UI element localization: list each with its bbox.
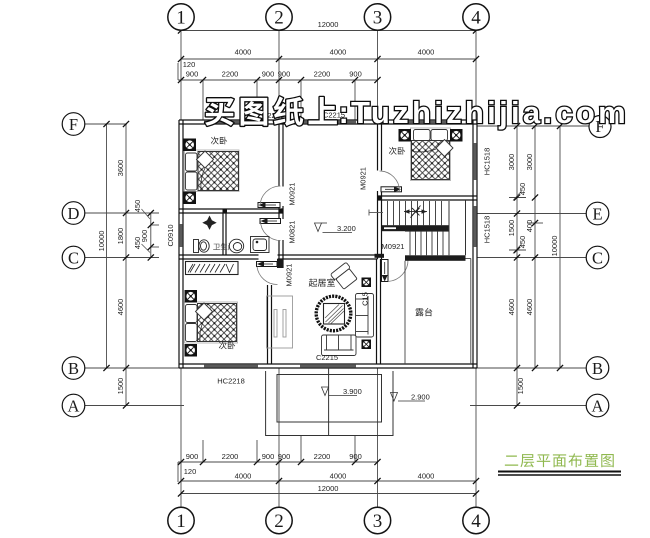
svg-text:C2215: C2215 bbox=[316, 353, 338, 362]
wall bedroom2 bottom bbox=[378, 196, 478, 200]
svg-text:900: 900 bbox=[278, 70, 291, 79]
room label 露台 bbox=[415, 308, 432, 316]
living room sofa bottom bbox=[322, 335, 357, 356]
door M0821 bath arc bbox=[261, 221, 281, 241]
living room armchair bbox=[330, 262, 358, 290]
left dimension lines bbox=[107, 124, 160, 406]
terrace inner parapet lines bbox=[404, 261, 406, 364]
svg-text:4000: 4000 bbox=[418, 48, 435, 57]
stairs upper flight treads bbox=[388, 201, 442, 225]
interior wall v2 hall/bedroom-stairs bbox=[377, 124, 382, 364]
top-left bedroom: bed outline bbox=[185, 150, 240, 192]
svg-text:2: 2 bbox=[274, 511, 284, 532]
svg-text:1500: 1500 bbox=[507, 220, 516, 237]
svg-text::: : bbox=[339, 95, 349, 130]
wall junction blobs bbox=[279, 209, 284, 214]
svg-text:1500: 1500 bbox=[516, 378, 525, 395]
svg-text:1500: 1500 bbox=[116, 378, 125, 395]
living room rug circle bbox=[316, 296, 351, 331]
nightstand lamp 2 bbox=[184, 192, 197, 205]
svg-text:450: 450 bbox=[518, 183, 527, 196]
room label 起居室 bbox=[309, 278, 335, 286]
dimension texts top bbox=[183, 20, 435, 79]
svg-text:HC1518: HC1518 bbox=[483, 216, 492, 244]
washbasin bbox=[229, 239, 243, 253]
svg-text:3.200: 3.200 bbox=[337, 224, 356, 233]
svg-text:C0910: C0910 bbox=[166, 224, 175, 246]
svg-text:4600: 4600 bbox=[116, 299, 125, 316]
grid bubbles bottom bbox=[168, 507, 489, 533]
svg-text:4000: 4000 bbox=[235, 48, 252, 57]
TITLE green bbox=[498, 453, 621, 475]
svg-text:M0921: M0921 bbox=[359, 167, 368, 190]
svg-text:HC1518: HC1518 bbox=[483, 148, 492, 176]
window C0910 band bbox=[180, 224, 183, 247]
svg-text:900: 900 bbox=[186, 70, 199, 79]
lower bedroom bed outline bbox=[185, 302, 238, 343]
door M0921 right bedroom leaf bbox=[381, 187, 402, 192]
svg-text:3.900: 3.900 bbox=[343, 387, 362, 396]
svg-text:4000: 4000 bbox=[330, 48, 347, 57]
hinge stub at living door bbox=[277, 259, 284, 268]
svg-text:M0921: M0921 bbox=[285, 264, 294, 287]
svg-text:900: 900 bbox=[186, 452, 199, 461]
living room table bbox=[324, 304, 345, 325]
svg-text:2200: 2200 bbox=[314, 452, 331, 461]
svg-text:3000: 3000 bbox=[507, 154, 516, 171]
door M0821 bath leaf bbox=[260, 219, 281, 224]
svg-text:3000: 3000 bbox=[525, 154, 534, 171]
svg-text:4: 4 bbox=[471, 8, 481, 29]
svg-text:120: 120 bbox=[184, 467, 197, 476]
porch outline bbox=[266, 368, 393, 436]
pillows bbox=[186, 153, 198, 190]
svg-text:A: A bbox=[68, 396, 80, 415]
grid row lines left bbox=[85, 124, 184, 406]
bathroom divider wall bbox=[223, 213, 226, 255]
svg-text:1: 1 bbox=[176, 8, 186, 29]
svg-text:M0921: M0921 bbox=[288, 183, 297, 206]
svg-text:900: 900 bbox=[262, 452, 275, 461]
quilt bbox=[198, 152, 239, 191]
svg-text:10000: 10000 bbox=[550, 236, 559, 257]
grid bubbles top bbox=[168, 4, 489, 30]
bathroom label bbox=[213, 243, 234, 250]
svg-text:E: E bbox=[592, 204, 602, 223]
quilt fold right bedroom bbox=[436, 140, 453, 157]
window top-right bedroom band bbox=[405, 121, 462, 124]
bottom dimension tier lines bbox=[178, 435, 476, 494]
outer wall left bbox=[179, 120, 183, 368]
svg-text:4600: 4600 bbox=[507, 299, 516, 316]
stairs direction arrow bbox=[404, 206, 427, 218]
level marker 2.900 bbox=[391, 393, 426, 402]
quilt right bedroom bbox=[412, 141, 450, 180]
svg-text:900: 900 bbox=[349, 452, 362, 461]
svg-text:900: 900 bbox=[349, 70, 362, 79]
quilt lower bedroom bbox=[198, 304, 237, 342]
svg-text:M0921: M0921 bbox=[382, 242, 405, 251]
svg-text:4600: 4600 bbox=[525, 299, 534, 316]
svg-text:B: B bbox=[592, 359, 603, 378]
svg-text:Tuzhizhijia.com: Tuzhizhijia.com bbox=[351, 95, 629, 130]
window HC1518 lower band bbox=[474, 206, 477, 247]
svg-text:1800: 1800 bbox=[116, 228, 125, 245]
svg-text:3: 3 bbox=[373, 511, 383, 532]
svg-text:3: 3 bbox=[373, 8, 383, 29]
svg-text:C: C bbox=[68, 248, 79, 267]
room label 次卧 top-right bbox=[389, 147, 405, 155]
svg-text:12000: 12000 bbox=[318, 484, 339, 493]
nightstand lamp 6 bbox=[185, 344, 198, 357]
svg-text:900: 900 bbox=[278, 452, 291, 461]
window HC1518 upper band bbox=[474, 143, 477, 180]
nightstand lamp 1 bbox=[184, 139, 197, 152]
wall stub at terrace door bbox=[375, 254, 385, 258]
room label 次卧 top-left bbox=[211, 137, 227, 145]
door M0921 top-left bedroom leaf bbox=[258, 203, 280, 208]
stairs lower flight treads bbox=[410, 231, 443, 255]
svg-text:D: D bbox=[68, 204, 80, 223]
toilet bbox=[194, 240, 210, 253]
svg-text:1: 1 bbox=[176, 511, 186, 532]
stairs side edges bbox=[448, 201, 450, 255]
grid col lines bbox=[181, 31, 476, 508]
interior wall v1 bedroom/hall bbox=[279, 124, 283, 268]
window C2218 top band bbox=[204, 121, 258, 124]
svg-text:2200: 2200 bbox=[222, 452, 239, 461]
stairs bottom bar bbox=[405, 255, 466, 260]
watermark 买图纸上:Tuzhizhijia.com bbox=[205, 96, 337, 126]
quilt fold bbox=[197, 151, 214, 168]
top-right bedroom: bed outline bbox=[411, 128, 451, 181]
door M0921 living leaf bbox=[257, 262, 278, 267]
svg-text:4: 4 bbox=[471, 511, 481, 532]
door M0921 living arc bbox=[257, 267, 278, 285]
right dimension lines bbox=[509, 126, 560, 406]
svg-text:2.900: 2.900 bbox=[411, 393, 430, 402]
grid row lines right bbox=[470, 126, 589, 406]
svg-text:450: 450 bbox=[518, 236, 527, 249]
svg-text:900: 900 bbox=[262, 70, 275, 79]
pillows lower bedroom bbox=[186, 305, 198, 342]
door M0921 terrace arc bbox=[388, 260, 408, 282]
window C2215 top band bbox=[300, 121, 356, 124]
outer wall bottom bbox=[179, 364, 477, 368]
door M0921 top-left bedroom arc bbox=[260, 186, 281, 207]
nightstand lamp 4 bbox=[450, 129, 463, 142]
svg-text:HC2218: HC2218 bbox=[217, 377, 245, 386]
outer wall top bbox=[179, 120, 477, 124]
svg-text:120: 120 bbox=[183, 60, 196, 69]
living room cabinet bbox=[267, 296, 293, 348]
level marker 3.200 bbox=[315, 223, 353, 233]
top dimension tier lines bbox=[178, 31, 476, 121]
pillows right bedroom bbox=[414, 130, 448, 141]
svg-text:F: F bbox=[69, 115, 78, 134]
svg-text:12000: 12000 bbox=[318, 20, 339, 29]
svg-text:400: 400 bbox=[525, 220, 534, 233]
svg-text:4000: 4000 bbox=[330, 472, 347, 481]
window C2215 bottom band bbox=[300, 365, 356, 368]
living room side table 1 bbox=[362, 278, 372, 288]
level marker 3.900 bbox=[322, 387, 358, 396]
door M0921 terrace leaf bbox=[382, 260, 389, 282]
dimension texts left bbox=[97, 160, 149, 395]
svg-text:C15: C15 bbox=[361, 292, 370, 306]
svg-text:4000: 4000 bbox=[418, 472, 435, 481]
lower bedroom wardrobe bbox=[186, 262, 239, 275]
outer wall right bbox=[473, 120, 477, 368]
window HC2218 bottom band bbox=[204, 365, 258, 368]
E line tick in stair bbox=[369, 212, 383, 214]
svg-text:M0821: M0821 bbox=[288, 221, 297, 244]
tick slashes bbox=[103, 27, 563, 496]
interior wall D bedroom/bath bbox=[179, 209, 283, 213]
svg-text:C: C bbox=[592, 248, 603, 267]
dimension texts right bbox=[507, 154, 559, 395]
grid bubbles right bbox=[586, 116, 611, 417]
svg-text:2: 2 bbox=[274, 8, 284, 29]
room label 次卧 lower bbox=[219, 341, 235, 349]
dimension texts bottom bbox=[184, 452, 435, 493]
living room side table 2 bbox=[362, 340, 372, 350]
svg-text:2200: 2200 bbox=[222, 70, 239, 79]
nightstand lamp 5 bbox=[185, 290, 198, 303]
wall C row bbox=[179, 255, 378, 259]
svg-text:2200: 2200 bbox=[314, 70, 331, 79]
svg-text:450: 450 bbox=[133, 237, 142, 250]
nightstand lamp 3 bbox=[399, 129, 412, 142]
stairs landing bar bbox=[382, 225, 450, 231]
svg-text:450: 450 bbox=[133, 200, 142, 213]
svg-text:4000: 4000 bbox=[235, 472, 252, 481]
living west wall bbox=[268, 285, 272, 364]
bathroom shower symbol bbox=[202, 216, 216, 230]
quilt fold lower bedroom bbox=[196, 303, 213, 320]
svg-text:A: A bbox=[592, 396, 604, 415]
living room sofa right bbox=[356, 294, 374, 338]
washer counter bbox=[251, 237, 270, 253]
grid bubbles left bbox=[62, 113, 85, 417]
svg-text:3600: 3600 bbox=[116, 160, 125, 177]
door M0921 right bedroom arc bbox=[380, 171, 400, 191]
svg-text:B: B bbox=[68, 359, 79, 378]
svg-text:10000: 10000 bbox=[97, 231, 106, 252]
